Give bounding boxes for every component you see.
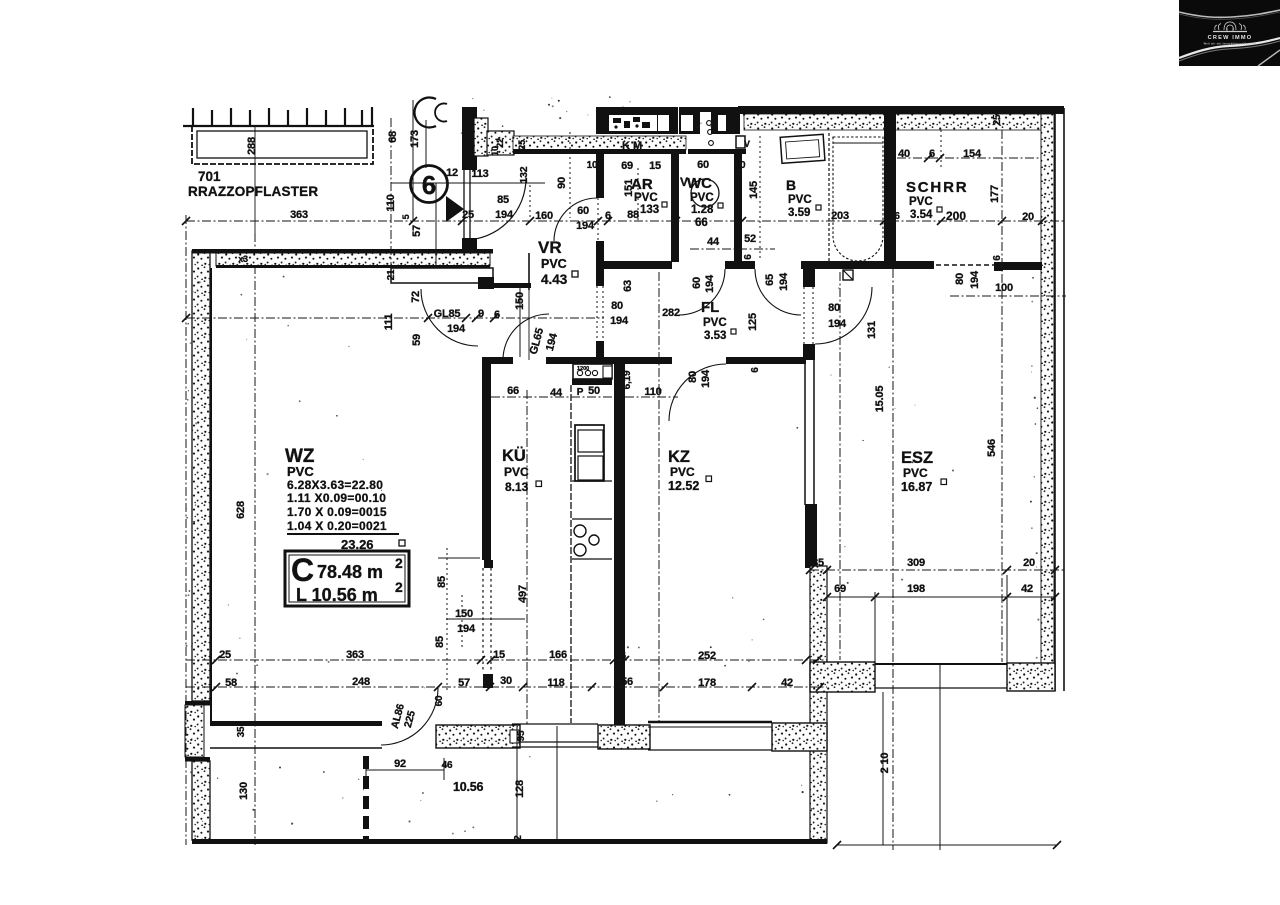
svg-text:80: 80 <box>954 273 966 285</box>
svg-text:203: 203 <box>831 210 849 222</box>
svg-text:363: 363 <box>346 649 364 661</box>
small circle top (stair symbol) <box>414 97 436 127</box>
svg-text:80: 80 <box>687 371 699 383</box>
svg-text:4.43: 4.43 <box>541 272 568 287</box>
svg-text:25: 25 <box>219 649 231 661</box>
bottom wall pier1 (hatched) <box>436 725 520 748</box>
svg-text:150: 150 <box>455 608 473 620</box>
svg-text:194: 194 <box>828 318 847 330</box>
KZ/ESZ wall second door block <box>803 344 815 360</box>
right outer wall thin lines <box>1054 108 1056 691</box>
svg-text:309: 309 <box>907 557 925 569</box>
svg-text:KÜ: KÜ <box>502 446 526 465</box>
counter side line <box>570 385 572 723</box>
dim vertical x570 VR <box>569 132 571 218</box>
svg-text:2 10: 2 10 <box>879 753 891 774</box>
svg-text:90: 90 <box>556 177 568 189</box>
dim ESZ y570 <box>810 569 1066 571</box>
dim vertical x186 <box>185 215 187 845</box>
svg-text:132: 132 <box>518 166 530 183</box>
balcony floor bottom edge <box>192 839 827 844</box>
svg-text:KZ: KZ <box>668 448 690 466</box>
svg-text:497: 497 <box>517 585 529 603</box>
terrace dim vertical x255 <box>254 126 256 233</box>
dim vertical ESZ x875 <box>874 592 876 664</box>
svg-text:60: 60 <box>434 695 445 706</box>
WC plumbing circles <box>707 121 712 126</box>
svg-text:113: 113 <box>471 168 488 180</box>
dimension texts <box>219 114 1035 841</box>
AR left wall mid <box>596 241 604 286</box>
room label WZ <box>285 446 405 552</box>
black block right of KM <box>679 107 740 134</box>
corridor wall seg3 <box>726 357 806 364</box>
svg-text:2: 2 <box>513 835 524 841</box>
svg-text:128: 128 <box>514 780 526 798</box>
svg-text:85: 85 <box>434 636 446 648</box>
WZ top wall inner line <box>216 265 490 268</box>
small white fixture square <box>736 136 745 148</box>
svg-text:194: 194 <box>778 272 790 291</box>
VR-FL door opening lines <box>596 286 598 341</box>
svg-text:30: 30 <box>500 675 512 687</box>
left outer wall window gap <box>185 701 210 706</box>
bottom wall WZ: top line seg1 <box>210 721 382 726</box>
svg-text:150: 150 <box>514 292 526 310</box>
WC toilet circle <box>691 179 719 207</box>
top-right corner step <box>986 108 1042 114</box>
svg-text:60: 60 <box>735 160 746 171</box>
dim vertical x523 KU <box>526 390 528 724</box>
svg-text:60: 60 <box>697 159 709 171</box>
svg-text:80: 80 <box>611 300 623 312</box>
svg-text:1.04 X 0.20=0021: 1.04 X 0.20=0021 <box>287 519 387 533</box>
SCHRR door dashes <box>936 264 996 266</box>
svg-text:3.59: 3.59 <box>788 207 810 219</box>
svg-text:6: 6 <box>605 210 611 222</box>
svg-text:PVC: PVC <box>287 464 314 479</box>
dim vertical x426 upper stem <box>425 120 427 168</box>
svg-text:60: 60 <box>577 205 589 217</box>
svg-text:145: 145 <box>748 181 760 199</box>
svg-text:194: 194 <box>457 623 476 635</box>
corridor wall (FL bottom) seg1 <box>482 357 513 364</box>
dim vertical x1002 <box>1001 130 1003 662</box>
svg-text:SCHRR: SCHRR <box>906 179 968 196</box>
ESZ bottom wall pier right <box>1007 663 1055 691</box>
KU door arc GL65 <box>503 314 549 360</box>
svg-text:PVC: PVC <box>903 466 928 480</box>
window lines seg2 <box>512 723 598 725</box>
left outer wall (hatched) upper <box>192 251 210 701</box>
dim main horizontal y221 <box>186 220 1066 222</box>
svg-text:151: 151 <box>623 179 635 197</box>
svg-text:15: 15 <box>649 160 661 172</box>
KZ/ESZ wall lower black <box>805 504 817 568</box>
svg-text:363: 363 <box>290 209 308 221</box>
svg-text:PVC: PVC <box>788 194 812 206</box>
svg-text:69: 69 <box>834 583 846 595</box>
wall step layer below (white with border) <box>391 268 493 283</box>
dim vertical x426 circle stem <box>435 183 437 268</box>
svg-text:110: 110 <box>385 194 397 211</box>
tick marks <box>182 154 1061 849</box>
svg-text:GL85: GL85 <box>434 308 461 320</box>
KZ door arc 80/194 <box>669 364 726 421</box>
B door arc 65/194 <box>755 269 801 315</box>
svg-text:9: 9 <box>478 308 484 320</box>
outer wall below ESZ (hatched vertical) <box>810 566 827 843</box>
dim ESZ y597 <box>827 596 1055 598</box>
WC top wall line <box>688 149 746 154</box>
entrance door arc 85/194 <box>464 178 526 240</box>
bottom wall pier2 (hatched) <box>598 725 650 749</box>
WZ top wall hatched band <box>216 253 490 266</box>
svg-text:66: 66 <box>507 385 519 397</box>
svg-text:200: 200 <box>946 209 966 223</box>
svg-text:CREW IMMO: CREW IMMO <box>1208 35 1253 41</box>
svg-text:6: 6 <box>929 148 935 160</box>
svg-text:194: 194 <box>576 220 595 232</box>
svg-text:1.70 X 0.09=0015: 1.70 X 0.09=0015 <box>287 505 387 519</box>
bathtub outer left line <box>828 133 830 262</box>
svg-text:44: 44 <box>550 387 563 399</box>
svg-text:288: 288 <box>246 137 258 155</box>
svg-text:20: 20 <box>1022 211 1034 223</box>
dim vertical x483 WZ bottom <box>461 595 463 650</box>
svg-text:85: 85 <box>497 194 509 206</box>
terrace ticked line top-left <box>183 107 374 126</box>
svg-text:6: 6 <box>743 254 754 260</box>
svg-text:131: 131 <box>866 321 878 339</box>
svg-text:57: 57 <box>458 677 470 689</box>
svg-text:194: 194 <box>704 274 716 293</box>
svg-text:25: 25 <box>517 139 528 150</box>
window lines seg3 KZ <box>648 721 772 723</box>
dim 150/194 bracket WZ <box>438 557 480 559</box>
dim y183 entrance <box>391 182 545 184</box>
SCHRR-ESZ wall right segment <box>1001 262 1042 270</box>
svg-text:1.11 X0.09=00.10: 1.11 X0.09=00.10 <box>287 491 386 505</box>
B/SCHRR wall <box>884 114 896 265</box>
dim vertical x940 <box>939 664 941 850</box>
PLAN <box>182 96 1066 850</box>
svg-text:22: 22 <box>495 138 505 148</box>
dim vertical x440 WZ <box>446 548 448 693</box>
B washbasin <box>780 134 825 163</box>
svg-text:25: 25 <box>992 114 1003 125</box>
svg-text:15.05: 15.05 <box>874 386 886 413</box>
AR/WC wall <box>671 152 679 262</box>
bottom wall pier3 (hatched) <box>772 723 827 751</box>
dim vertical x530 entrance <box>529 185 531 218</box>
counter black band <box>572 379 612 385</box>
dim vertical x893 <box>892 269 894 850</box>
svg-text:6: 6 <box>894 211 900 222</box>
svg-text:173: 173 <box>409 130 421 148</box>
svg-text:110: 110 <box>644 386 661 398</box>
terrace rectangle <box>192 126 373 164</box>
svg-text:546: 546 <box>986 439 998 457</box>
dim horizontal y660 <box>186 659 827 661</box>
left outer wall lower <box>192 761 210 840</box>
svg-text:21: 21 <box>386 269 397 280</box>
svg-text:44: 44 <box>707 236 720 248</box>
AR top band speckled <box>513 136 686 150</box>
svg-text:PVC: PVC <box>504 465 529 479</box>
svg-text:42: 42 <box>1021 583 1033 595</box>
entrance door leaf lines <box>463 169 465 240</box>
svg-text:6: 6 <box>750 367 761 373</box>
SCHRR door block <box>994 262 1003 271</box>
FL top wall segment AR <box>602 261 672 269</box>
svg-text:194: 194 <box>610 315 629 327</box>
svg-text:194: 194 <box>700 369 712 388</box>
dimension lines <box>186 100 1066 850</box>
svg-text:PVC: PVC <box>541 257 567 271</box>
svg-text:6: 6 <box>992 255 1003 261</box>
top wall band over B/SCHRR: outer black line <box>738 106 1064 114</box>
svg-text:95: 95 <box>516 730 527 741</box>
KU left wall <box>482 357 491 560</box>
svg-text:118: 118 <box>547 677 564 689</box>
entrance arrow triangle <box>446 196 464 222</box>
kitchen counter top row <box>573 364 612 379</box>
svg-text:42: 42 <box>781 677 793 689</box>
svg-text:5: 5 <box>401 214 411 219</box>
bathtub inner top line <box>833 142 883 144</box>
svg-text:65: 65 <box>764 274 776 286</box>
dim vertical x883 210 <box>882 692 884 845</box>
balcony door arc AL86 <box>381 688 438 745</box>
dim vertical x391 <box>390 118 392 268</box>
svg-text:58: 58 <box>225 677 237 689</box>
svg-text:50: 50 <box>588 385 600 397</box>
dim SCHRR y158 <box>897 157 1041 159</box>
svg-text:40: 40 <box>898 148 910 160</box>
svg-text:178: 178 <box>698 677 716 689</box>
svg-text:B: B <box>786 177 796 193</box>
svg-text:12.52: 12.52 <box>668 479 699 493</box>
corridor wall seg2 <box>546 357 672 364</box>
svg-text:194: 194 <box>447 323 466 335</box>
svg-text:66: 66 <box>695 217 708 229</box>
counter boxes <box>575 425 604 481</box>
balcony divider dashed <box>363 756 369 843</box>
svg-text:80: 80 <box>828 302 840 314</box>
svg-text:100: 100 <box>995 282 1013 294</box>
right outer wall speckle <box>1041 114 1054 690</box>
svg-text:3.53: 3.53 <box>704 330 726 342</box>
KU/KZ wall <box>614 357 625 725</box>
svg-text:57: 57 <box>411 225 423 237</box>
WC door arc 60/194 <box>679 269 725 315</box>
bottom wall lower thin line seg1 <box>210 747 382 749</box>
dim horizontal y687 <box>186 686 827 688</box>
area box C/L <box>285 551 409 606</box>
svg-text:248: 248 <box>352 676 370 688</box>
top wall speckled band B/SCHRR <box>744 114 1041 130</box>
svg-text:35: 35 <box>236 726 247 737</box>
svg-text:P: P <box>577 387 584 398</box>
sink circles <box>574 525 586 537</box>
svg-text:2: 2 <box>395 555 403 571</box>
dim vertical x413 <box>412 100 414 221</box>
ESZ bottom wall pier left <box>810 662 875 692</box>
svg-text:6: 6 <box>494 309 500 321</box>
svg-text:125: 125 <box>747 313 759 331</box>
svg-text:60: 60 <box>691 277 703 289</box>
wall VR top short <box>493 283 531 288</box>
svg-text:72: 72 <box>410 291 422 303</box>
svg-text:L 10.56 m: L 10.56 m <box>296 585 378 605</box>
svg-text:15: 15 <box>493 649 505 661</box>
svg-text:PVC: PVC <box>703 317 727 329</box>
svg-text:133: 133 <box>640 204 659 216</box>
svg-text:RRAZZOPFLASTER: RRAZZOPFLASTER <box>188 184 318 199</box>
svg-text:63: 63 <box>622 280 634 292</box>
AR top wall black line <box>513 149 686 154</box>
svg-text:20: 20 <box>1023 557 1035 569</box>
dim y296 right <box>950 295 1066 297</box>
svg-text:16.87: 16.87 <box>901 480 932 494</box>
WC/B wall <box>734 152 742 262</box>
AR left wall upper <box>596 152 604 198</box>
dim vertical x520 <box>519 283 521 357</box>
hatched band right of entrance (stepped wall) <box>474 118 488 156</box>
svg-text:111: 111 <box>383 314 395 331</box>
radiator square FL <box>843 270 853 280</box>
AR door arc 60/194 <box>554 198 597 241</box>
bathtub <box>833 137 883 261</box>
svg-text:K M: K M <box>622 140 642 152</box>
svg-text:VR: VR <box>538 238 562 257</box>
entrance door lower block <box>462 238 477 252</box>
FL/ESZ top wall segment <box>801 261 934 269</box>
circle 6 <box>411 166 448 203</box>
svg-text:166: 166 <box>549 649 567 661</box>
dim horizontal y318 <box>186 317 604 319</box>
dim SCHRR vertical x941 <box>940 130 942 170</box>
svg-text:252: 252 <box>698 650 716 662</box>
svg-text:PVC: PVC <box>909 196 933 208</box>
svg-text:2: 2 <box>395 579 403 595</box>
svg-text:6: 6 <box>422 170 436 200</box>
svg-text:PVC: PVC <box>690 192 714 204</box>
scan noise dots <box>186 96 1042 837</box>
svg-text:282: 282 <box>662 307 680 319</box>
svg-text:154: 154 <box>963 148 982 160</box>
AR left wall lower block <box>596 341 604 364</box>
WZ door arc GL85 <box>421 289 478 346</box>
svg-text:PVC: PVC <box>634 192 658 204</box>
svg-text:52: 52 <box>744 233 756 245</box>
svg-text:198: 198 <box>907 583 925 595</box>
svg-text:177: 177 <box>989 185 1001 203</box>
svg-text:85: 85 <box>436 576 448 588</box>
svg-text:WC: WC <box>687 175 712 192</box>
svg-text:6,19: 6,19 <box>622 370 633 389</box>
crown icon <box>1213 22 1247 32</box>
svg-text:FL: FL <box>701 299 719 316</box>
svg-text:160: 160 <box>535 210 553 222</box>
dim vertical x760 B <box>759 136 761 260</box>
svg-text:V: V <box>744 139 750 149</box>
dim vertical x598 door dotted <box>597 198 599 241</box>
svg-text:701: 701 <box>198 169 221 184</box>
dim KU top y397 <box>491 396 614 398</box>
dim vertical x840 <box>839 272 841 660</box>
svg-text:Weil wir mit Immobilienmaklerb: Weil wir mit Immobilienmaklerbüro <box>1204 42 1257 46</box>
svg-text:10.56: 10.56 <box>453 780 484 794</box>
svg-text:6: 6 <box>620 650 626 662</box>
KZ/ESZ wall thin double mid <box>804 360 806 505</box>
svg-text:6: 6 <box>363 758 369 769</box>
WZ inner wall face left <box>210 268 212 721</box>
VR/WZ thin wall <box>528 253 530 290</box>
dim 92 line y770 <box>366 769 444 771</box>
dim vertical x638 AR <box>637 168 639 221</box>
svg-text:194: 194 <box>495 209 514 221</box>
svg-text:3.54: 3.54 <box>910 209 933 221</box>
svg-text:PVC: PVC <box>670 465 695 479</box>
svg-text:69: 69 <box>621 160 633 172</box>
svg-text:12: 12 <box>446 167 458 179</box>
svg-text:6.28X3.63=22.80: 6.28X3.63=22.80 <box>287 478 383 492</box>
svg-text:8.13: 8.13 <box>505 480 529 494</box>
svg-text:56: 56 <box>621 676 633 688</box>
svg-text:628: 628 <box>235 501 247 519</box>
KZ/ESZ wall top door block <box>803 269 815 287</box>
entrance wall vertical W1 <box>462 107 477 170</box>
svg-text:92: 92 <box>394 758 406 770</box>
dim bottom y845 <box>837 844 1057 846</box>
svg-text:10: 10 <box>587 160 598 171</box>
LOGO crew immo black banner top-right <box>1179 0 1280 66</box>
svg-text:C: C <box>291 552 314 588</box>
svg-text:88: 88 <box>627 209 639 221</box>
svg-text:ESZ: ESZ <box>901 449 933 467</box>
dim vertical x659 KZ <box>658 272 660 721</box>
ESZ door arc 80/194 <box>815 287 872 344</box>
svg-text:78.48 m: 78.48 m <box>317 562 383 582</box>
WZ top wall outer line <box>192 249 493 254</box>
svg-text:x3: x3 <box>238 254 248 264</box>
balcony inner line x517 <box>516 727 518 840</box>
appliance cluster above AR (neighbour flat) <box>596 107 678 134</box>
dim B y249 <box>690 248 775 250</box>
KU left wall foot block <box>483 674 493 688</box>
balcony line x557 <box>556 726 558 842</box>
svg-text:194: 194 <box>969 270 981 289</box>
svg-text:35: 35 <box>812 557 824 569</box>
svg-text:130: 130 <box>238 782 250 800</box>
svg-text:46: 46 <box>442 760 453 771</box>
KZ/ESZ wall thin double (upper window) <box>803 287 805 344</box>
svg-text:59: 59 <box>411 334 423 346</box>
svg-text:68: 68 <box>387 131 399 143</box>
svg-text:25: 25 <box>462 209 474 221</box>
ESZ bottom window lines <box>875 663 1007 665</box>
svg-text:1.28: 1.28 <box>691 204 714 216</box>
door block VR left <box>478 277 494 289</box>
FL top wall segment WC-B <box>725 261 755 269</box>
dim vertical ESZ x1007 <box>1006 575 1008 663</box>
